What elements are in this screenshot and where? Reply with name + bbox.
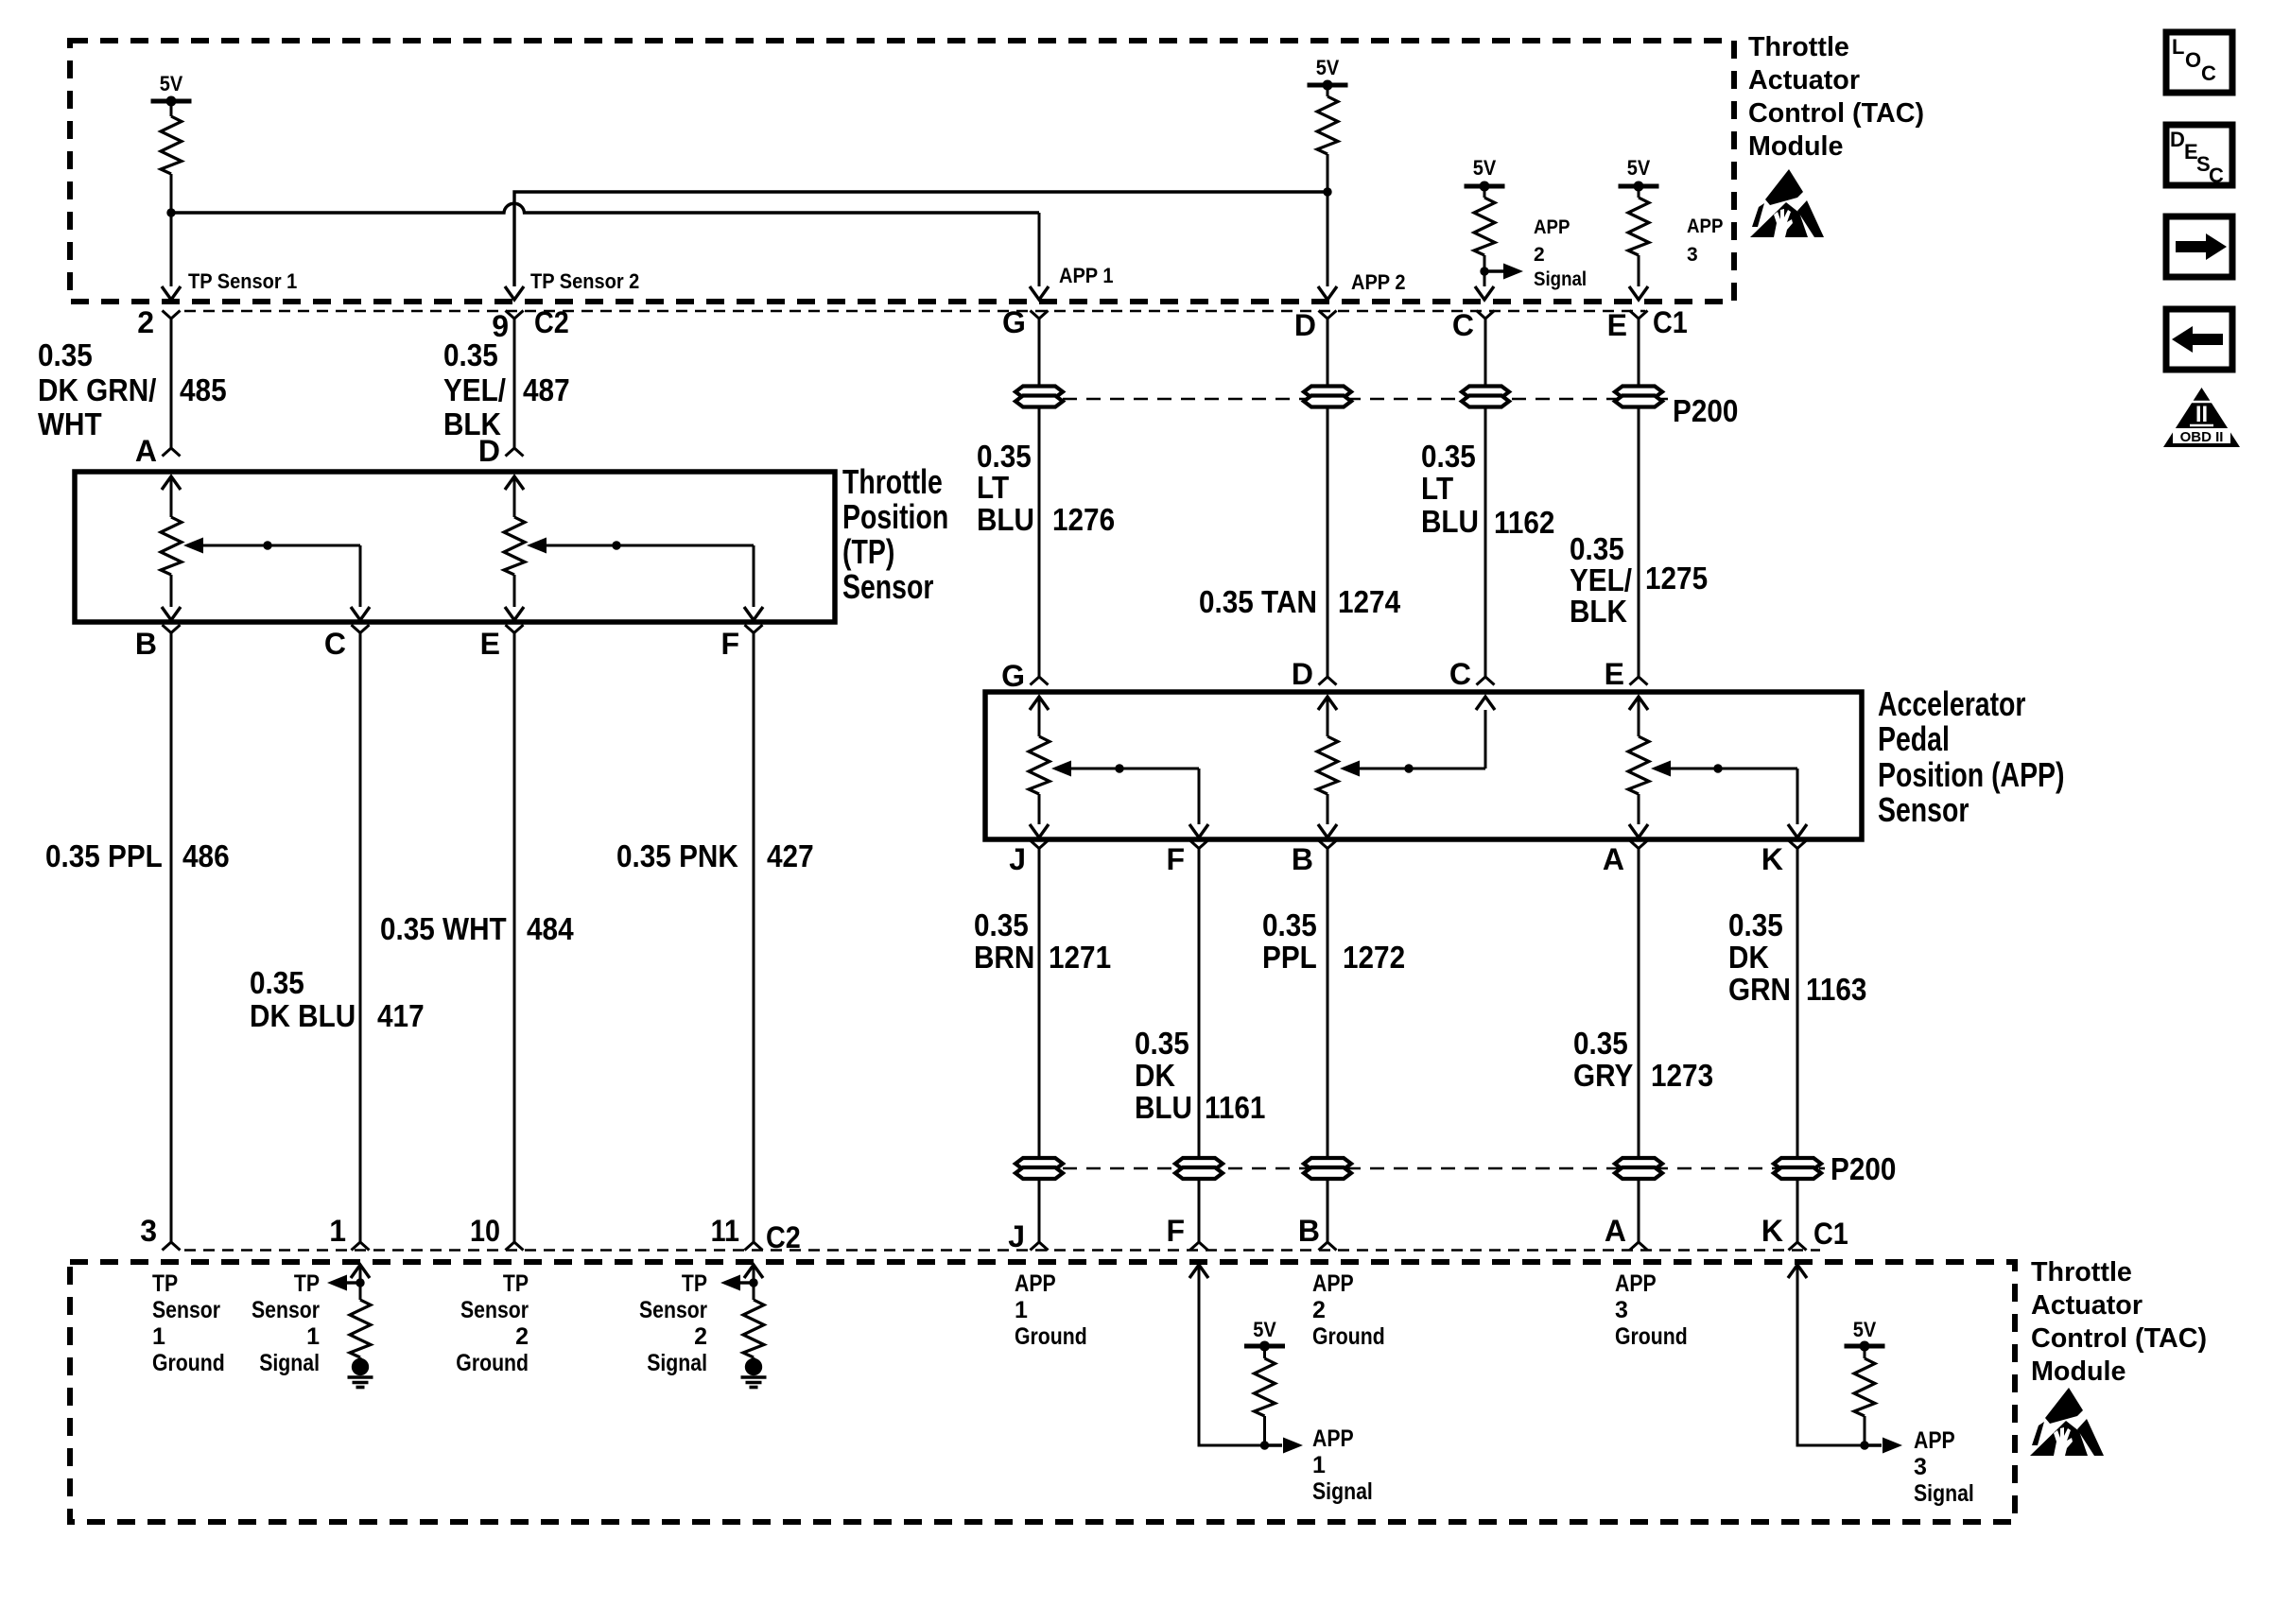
svg-text:3: 3	[1914, 1454, 1927, 1480]
wire: APP 2 output	[1327, 192, 1329, 286]
svg-text:485: 485	[180, 372, 227, 407]
resistor R4 (APP 3)	[1638, 186, 1640, 198]
svg-text:C1: C1	[1813, 1217, 1848, 1251]
svg-text:APP: APP	[1312, 1425, 1354, 1452]
connector row: TAC module C1/C2 (bottom, thin dashed)	[184, 1249, 1820, 1252]
APP 1 signal input wire	[1189, 1265, 1208, 1278]
pin B (TP sensor)	[163, 625, 181, 633]
resistor R7 (APP 1 signal)	[1263, 1346, 1266, 1358]
pin B (C1)	[1319, 1242, 1337, 1251]
svg-text:WHT: WHT	[38, 406, 102, 441]
svg-text:A: A	[1605, 1214, 1626, 1248]
svg-text:TP: TP	[682, 1270, 707, 1297]
pin 9 (C2)	[506, 311, 524, 320]
wire: 5V bus (upper) from APP2 node to TP Sensor 2	[514, 192, 1327, 286]
svg-text:C: C	[1449, 657, 1471, 691]
APP 3 signal input wire	[1788, 1265, 1807, 1278]
wire: P200 to APP sensor pin E	[1638, 406, 1640, 677]
svg-text:BLK: BLK	[1570, 594, 1627, 629]
potentiometer TP sensor 1	[162, 476, 181, 490]
svg-text:APP: APP	[1534, 216, 1570, 238]
wiper wire to pin F	[753, 545, 755, 607]
svg-text:1272: 1272	[1343, 940, 1405, 975]
svg-text:1: 1	[1015, 1297, 1028, 1323]
svg-text:C2: C2	[766, 1220, 801, 1254]
svg-text:P200: P200	[1673, 393, 1738, 428]
wiper arrow (APP2)	[1340, 761, 1360, 777]
pin 3 (C2)	[163, 1242, 181, 1251]
junction dot (APP 2 Signal)	[1480, 267, 1488, 275]
wire: P200 to APP sensor pin C	[1484, 406, 1487, 677]
TP sensor 1 signal input: arrow + pull-down	[351, 1265, 370, 1278]
pin F (C1)	[1190, 1242, 1208, 1251]
svg-text:1: 1	[329, 1214, 346, 1248]
wire: TP pin E to pin 10	[513, 633, 516, 1243]
svg-text:Ground: Ground	[1312, 1323, 1385, 1350]
wire: TP Sensor 1 output	[170, 213, 173, 286]
component box: Accelerator Pedal Position (APP) Sensor	[985, 692, 1862, 839]
svg-text:1273: 1273	[1651, 1058, 1713, 1093]
pin F (APP sensor)	[1190, 840, 1208, 849]
wiper arrow (TP1)	[183, 538, 203, 554]
svg-text:TP Sensor 1: TP Sensor 1	[188, 269, 297, 293]
svg-text:1163: 1163	[1806, 972, 1866, 1007]
svg-text:Module: Module	[2031, 1356, 2126, 1387]
resistor R5 (TP1 signal)	[350, 1300, 371, 1357]
svg-text:BRN: BRN	[974, 940, 1034, 975]
svg-text:2: 2	[1534, 244, 1545, 266]
svg-text:J: J	[1008, 1219, 1025, 1253]
svg-text:Throttle: Throttle	[842, 462, 943, 501]
svg-text:BLU: BLU	[1421, 504, 1479, 539]
pin D (C1)	[1319, 311, 1337, 320]
svg-text:Sensor: Sensor	[842, 567, 933, 606]
pin G (APP sensor)	[1031, 677, 1049, 685]
svg-text:Sensor: Sensor	[460, 1297, 529, 1323]
icon: back arrow button	[2166, 309, 2232, 370]
svg-text:P200: P200	[1831, 1151, 1896, 1186]
svg-text:1162: 1162	[1494, 505, 1554, 540]
svg-text:2: 2	[137, 305, 154, 339]
svg-text:1: 1	[1312, 1452, 1326, 1478]
svg-text:C: C	[2209, 164, 2224, 187]
inline connector P200 at G	[1015, 387, 1063, 407]
TP sensor 2 signal input: arrow + pull-down	[744, 1265, 763, 1278]
svg-text:Signal: Signal	[1914, 1480, 1974, 1507]
inline connector P200 at D	[1304, 387, 1351, 407]
svg-text:Sensor: Sensor	[252, 1297, 320, 1323]
svg-text:BLU: BLU	[977, 502, 1034, 537]
svg-text:Control (TAC): Control (TAC)	[1748, 98, 1924, 129]
svg-text:E: E	[1607, 308, 1627, 342]
svg-text:0.35: 0.35	[977, 439, 1032, 474]
icon: forward arrow button	[2166, 216, 2232, 277]
svg-text:B: B	[135, 627, 157, 661]
pin C (APP sensor)	[1477, 677, 1495, 685]
module box: Throttle Actuator Control (TAC) Module (bottom)	[70, 1262, 2015, 1522]
wiper wire to pin C (up)	[1484, 710, 1487, 769]
resistor R2 (APP 2 pull-up)	[1327, 85, 1329, 96]
resistor R8 (APP 3 signal)	[1864, 1346, 1866, 1358]
arrow: APP 2 Signal tap	[1484, 269, 1504, 272]
svg-text:5V: 5V	[160, 72, 183, 95]
inline connector P200 at B	[1304, 1158, 1351, 1179]
svg-text:Throttle: Throttle	[1748, 32, 1849, 62]
svg-text:TP: TP	[503, 1270, 529, 1297]
svg-text:(TP): (TP)	[842, 532, 894, 571]
svg-text:K: K	[1761, 1214, 1783, 1248]
svg-text:TP: TP	[294, 1270, 320, 1297]
wire: APP pin B to P200	[1327, 849, 1329, 1160]
inline connector P200 at J	[1015, 1158, 1063, 1179]
wiper wire to pin C	[359, 545, 362, 607]
svg-text:0.35: 0.35	[250, 965, 304, 1000]
svg-text:1275: 1275	[1645, 561, 1708, 596]
svg-text:Signal: Signal	[259, 1350, 320, 1376]
wire: APP pin K to P200	[1796, 849, 1799, 1160]
svg-text:2: 2	[1312, 1297, 1326, 1323]
pin F (TP sensor)	[745, 625, 763, 633]
svg-text:A: A	[135, 434, 157, 468]
svg-text:3: 3	[1687, 244, 1698, 266]
pin D (TP sensor)	[506, 448, 524, 457]
svg-text:K: K	[1761, 842, 1783, 876]
svg-text:427: 427	[767, 838, 814, 873]
svg-text:0.35: 0.35	[443, 337, 498, 372]
inline connector P200 at E	[1615, 387, 1662, 407]
svg-text:E: E	[480, 627, 500, 661]
pin J (APP sensor)	[1031, 840, 1049, 849]
svg-text:DK GRN/: DK GRN/	[38, 372, 156, 407]
icon: DESC button	[2166, 125, 2232, 185]
svg-text:O: O	[2185, 48, 2201, 72]
svg-text:Position (APP): Position (APP)	[1878, 755, 2065, 794]
svg-text:APP: APP	[1015, 1270, 1056, 1297]
svg-text:APP 2: APP 2	[1351, 270, 1406, 294]
svg-text:Throttle: Throttle	[2031, 1257, 2132, 1287]
junction dot (TP1 / 5V bus)	[166, 208, 175, 216]
svg-text:D: D	[478, 434, 500, 468]
svg-text:OBD II: OBD II	[2180, 429, 2224, 445]
module box: Throttle Actuator Control (TAC) Module (top)	[70, 41, 1734, 302]
junction dot (APP 3 signal)	[1860, 1441, 1868, 1449]
pin A (APP sensor)	[1630, 840, 1648, 849]
svg-text:1: 1	[152, 1323, 165, 1350]
svg-text:Ground: Ground	[1615, 1323, 1688, 1350]
svg-text:0.35: 0.35	[1728, 907, 1783, 942]
pin 2 (C2)	[163, 311, 181, 320]
inline connector P200 at F	[1175, 1158, 1223, 1179]
wire: pin 2 to TP sensor pin A	[170, 319, 173, 448]
svg-text:10: 10	[470, 1214, 500, 1248]
svg-text:0.35: 0.35	[38, 337, 93, 372]
svg-text:DK: DK	[1135, 1058, 1175, 1093]
svg-text:APP: APP	[1914, 1427, 1955, 1454]
svg-text:G: G	[1001, 659, 1025, 693]
svg-text:5V: 5V	[1473, 156, 1497, 180]
wiper arrow (APP3)	[1651, 761, 1671, 777]
svg-text:0.35 WHT: 0.35 WHT	[380, 911, 507, 946]
resistor R6 (TP2 signal)	[743, 1300, 764, 1357]
svg-text:Pedal: Pedal	[1878, 719, 1950, 758]
ESD sensitive symbol (bottom module)	[2030, 1388, 2104, 1456]
svg-text:LT: LT	[977, 470, 1009, 505]
svg-text:0.35 TAN: 0.35 TAN	[1199, 584, 1317, 619]
svg-text:0.35 PPL: 0.35 PPL	[45, 838, 163, 873]
svg-text:E: E	[1605, 657, 1624, 691]
pin A (C1)	[1630, 1242, 1648, 1251]
wire: pin E to P200	[1638, 319, 1640, 387]
svg-text:Sensor: Sensor	[1878, 790, 1969, 829]
inline connector P200 at A	[1615, 1158, 1662, 1179]
pin E (APP sensor)	[1630, 677, 1648, 685]
wire: TP pin B to pin 3	[170, 633, 173, 1243]
svg-text:Control (TAC): Control (TAC)	[2031, 1323, 2207, 1354]
svg-text:0.35: 0.35	[1135, 1026, 1189, 1061]
svg-text:C: C	[1452, 308, 1474, 342]
junction dot (APP 2 node)	[1323, 187, 1331, 196]
inline connector P200 at K	[1774, 1158, 1821, 1179]
svg-text:5V: 5V	[1853, 1318, 1877, 1341]
wire: APP 2 Signal drop	[1484, 271, 1486, 286]
svg-text:II: II	[2195, 402, 2208, 427]
svg-text:5V: 5V	[1316, 56, 1340, 79]
svg-text:Accelerator: Accelerator	[1878, 684, 2026, 723]
svg-text:LT: LT	[1421, 471, 1453, 506]
ground (TP2 signal)	[745, 1358, 762, 1375]
svg-text:D: D	[1292, 657, 1313, 691]
svg-text:Actuator: Actuator	[2031, 1290, 2143, 1321]
svg-text:1161: 1161	[1205, 1090, 1265, 1125]
wire: TP pin F to pin 11	[753, 633, 755, 1243]
pin 11 (C2)	[745, 1242, 763, 1251]
svg-text:5V: 5V	[1627, 156, 1651, 180]
pin G (C1)	[1031, 311, 1049, 320]
svg-text:C1: C1	[1653, 305, 1688, 339]
svg-text:TP Sensor 2: TP Sensor 2	[530, 269, 639, 293]
svg-text:5V: 5V	[1253, 1318, 1276, 1341]
svg-text:D: D	[2170, 128, 2185, 151]
svg-text:D: D	[1294, 308, 1316, 342]
svg-text:L: L	[2172, 35, 2184, 59]
svg-text:Ground: Ground	[456, 1350, 529, 1376]
connector P200 dashed link (row 1)	[1063, 398, 1669, 401]
svg-text:Sensor: Sensor	[639, 1297, 707, 1323]
svg-text:TP: TP	[152, 1270, 178, 1297]
wiper wire to pin K	[1796, 769, 1799, 824]
icon: LOC button	[2166, 32, 2232, 93]
svg-text:484: 484	[527, 911, 574, 946]
svg-text:Position: Position	[842, 497, 948, 536]
wire: pin C to P200	[1484, 319, 1487, 387]
connector row: TAC module C1/C2 (thin dashed)	[184, 310, 1645, 313]
svg-text:YEL/: YEL/	[443, 372, 506, 407]
svg-text:Ground: Ground	[152, 1350, 225, 1376]
ESD sensitive symbol (top module)	[1750, 169, 1824, 237]
svg-text:YEL/: YEL/	[1570, 562, 1632, 597]
svg-text:0.35: 0.35	[974, 907, 1029, 942]
svg-text:B: B	[1292, 842, 1313, 876]
pin D (APP sensor)	[1319, 677, 1337, 685]
pin E (C1)	[1630, 311, 1648, 320]
resistor R3 (APP 2 Signal)	[1484, 186, 1486, 198]
pin B (APP sensor)	[1319, 840, 1337, 849]
wire: pin G to P200	[1038, 319, 1041, 387]
arrow: APP 1 Signal	[1265, 1443, 1283, 1446]
svg-text:417: 417	[377, 998, 425, 1033]
svg-text:1: 1	[306, 1323, 320, 1350]
pin K (APP sensor)	[1789, 840, 1807, 849]
svg-text:Sensor: Sensor	[152, 1297, 220, 1323]
pin C (C1)	[1477, 311, 1495, 320]
svg-text:GRY: GRY	[1573, 1058, 1633, 1093]
pin 1 (C2)	[352, 1242, 370, 1251]
svg-text:487: 487	[523, 372, 570, 407]
inline connector P200 at C	[1462, 387, 1509, 407]
resistor R1 (TP Sensor 1 pull-up)	[170, 101, 173, 116]
wire: APP pin F to P200	[1198, 849, 1201, 1160]
svg-text:0.35: 0.35	[1573, 1026, 1628, 1061]
svg-text:Ground: Ground	[1015, 1323, 1087, 1350]
svg-text:1276: 1276	[1052, 502, 1115, 537]
potentiometer APP sensor 2	[1318, 697, 1337, 710]
svg-text:C: C	[2201, 61, 2216, 85]
wire: P200 to APP sensor pin D	[1327, 406, 1329, 677]
svg-text:DK BLU: DK BLU	[250, 998, 356, 1033]
svg-text:BLU: BLU	[1135, 1090, 1192, 1125]
wiper wire to pin F	[1198, 769, 1201, 824]
wire: P200 to pin K (bottom)	[1796, 1179, 1799, 1242]
svg-text:2: 2	[515, 1323, 529, 1350]
svg-text:APP: APP	[1312, 1270, 1354, 1297]
wire: APP pin J to P200	[1038, 849, 1041, 1160]
connector P200 dashed link (row 2)	[1063, 1167, 1825, 1170]
svg-text:1274: 1274	[1338, 584, 1401, 619]
wire: pin D to P200	[1327, 319, 1329, 387]
svg-text:Signal: Signal	[1312, 1478, 1373, 1505]
pin A (TP sensor)	[163, 448, 181, 457]
svg-text:Module: Module	[1748, 131, 1844, 162]
svg-text:PPL: PPL	[1262, 940, 1317, 975]
wire: P200 to pin J (bottom)	[1038, 1179, 1041, 1242]
svg-text:GRN: GRN	[1728, 972, 1791, 1007]
svg-text:G: G	[1002, 305, 1026, 339]
svg-text:0.35 PNK: 0.35 PNK	[616, 838, 738, 873]
svg-text:F: F	[1166, 1214, 1185, 1248]
wiper arrow (TP2)	[527, 538, 547, 554]
svg-text:0.35: 0.35	[1570, 531, 1624, 566]
wire: P200 to APP sensor pin G	[1038, 406, 1041, 677]
svg-text:3: 3	[1615, 1297, 1628, 1323]
wire: P200 to pin B (bottom)	[1327, 1179, 1329, 1242]
arrow: APP 3 Signal	[1865, 1443, 1882, 1446]
svg-text:486: 486	[182, 838, 230, 873]
wiper arrow (APP1)	[1051, 761, 1071, 777]
svg-text:APP: APP	[1687, 216, 1723, 237]
svg-text:DK: DK	[1728, 940, 1769, 975]
svg-text:C: C	[324, 627, 346, 661]
svg-text:APP: APP	[1615, 1270, 1657, 1297]
svg-text:Actuator: Actuator	[1748, 65, 1860, 95]
svg-text:0.35: 0.35	[1421, 439, 1476, 474]
svg-text:C2: C2	[534, 305, 569, 339]
wire: APP pin A to P200	[1638, 849, 1640, 1160]
wire: APP 1 output drop	[1038, 213, 1041, 286]
svg-text:Signal: Signal	[647, 1350, 707, 1376]
svg-text:APP 1: APP 1	[1059, 264, 1114, 287]
component box: Throttle Position (TP) Sensor	[75, 472, 835, 622]
svg-text:A: A	[1603, 842, 1624, 876]
svg-text:11: 11	[711, 1214, 739, 1248]
potentiometer APP sensor 3	[1629, 697, 1648, 710]
pin J (C1)	[1031, 1242, 1049, 1251]
svg-text:F: F	[720, 627, 739, 661]
svg-text:J: J	[1009, 842, 1026, 876]
wire: P200 to pin A (bottom)	[1638, 1179, 1640, 1242]
icon: OBD II triangle	[2163, 388, 2240, 447]
wire: pin 9 to TP sensor pin D	[513, 319, 516, 448]
wire: P200 to pin F (bottom)	[1198, 1179, 1201, 1242]
svg-text:B: B	[1298, 1214, 1320, 1248]
svg-text:1271: 1271	[1049, 940, 1111, 975]
pin K (C1)	[1789, 1242, 1807, 1251]
pin E (TP sensor)	[506, 625, 524, 633]
junction dot (APP 1 signal)	[1260, 1441, 1269, 1449]
svg-text:0.35: 0.35	[1262, 907, 1317, 942]
wire: TP pin C to pin 1	[359, 633, 362, 1243]
ground (TP1 signal)	[352, 1358, 369, 1375]
svg-text:F: F	[1166, 842, 1185, 876]
svg-text:2: 2	[694, 1323, 707, 1350]
svg-text:3: 3	[140, 1214, 157, 1248]
wire: 5V bus to APP 1 drive (with hop over TP Sensor 2 wire)	[171, 203, 1039, 213]
potentiometer APP sensor 1	[1030, 697, 1049, 710]
pin 10 (C2)	[506, 1242, 524, 1251]
pin C (TP sensor)	[352, 625, 370, 633]
potentiometer TP sensor 2	[505, 476, 524, 490]
svg-text:Signal: Signal	[1534, 268, 1587, 290]
